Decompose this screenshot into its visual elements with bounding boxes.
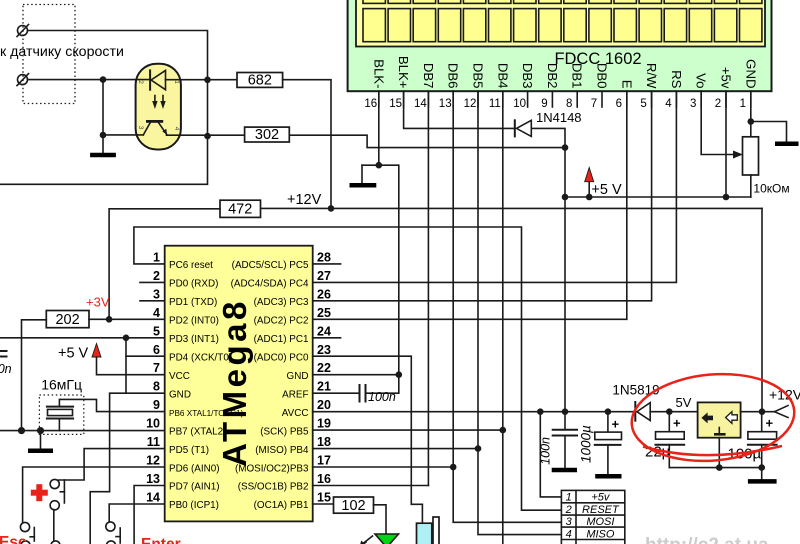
wire RESET net: pin1 up and across xyxy=(134,227,562,510)
wire +5v pin down to +5V row xyxy=(725,91,727,197)
junction SCK/DB4 xyxy=(500,427,507,434)
pin 3 stub xyxy=(140,300,165,302)
wire BLK- down xyxy=(378,91,380,165)
svg-text:Enter: Enter xyxy=(141,536,181,544)
svg-text:5: 5 xyxy=(640,98,646,110)
junction 22u xyxy=(666,408,673,415)
svg-text:PD7 (AIN1): PD7 (AIN1) xyxy=(169,482,219,493)
svg-text:AREF: AREF xyxy=(282,389,308,400)
svg-text:PD0 (RXD): PD0 (RXD) xyxy=(169,279,218,290)
capacitor C1 (left edge, clipped) xyxy=(0,351,7,357)
junction sensor2/gnd tap xyxy=(100,76,107,83)
wire node A down to emitter node xyxy=(207,80,209,136)
wire pin 17 MOSI to DB6 column xyxy=(313,466,454,468)
svg-text:12: 12 xyxy=(146,454,160,468)
svg-text:+5 V: +5 V xyxy=(591,182,622,198)
LCD pin 9 stub xyxy=(551,91,553,107)
button SB3 Enter contact top xyxy=(106,522,115,531)
capacitor C6 100u electrolytic xyxy=(748,412,777,468)
svg-text:(ADC0) PC0: (ADC0) PC0 xyxy=(254,352,309,363)
red highlight ellipse xyxy=(628,368,798,468)
wire pin 23 PC0 to buzzer xyxy=(313,356,423,523)
svg-text:4: 4 xyxy=(153,306,160,320)
svg-text:6: 6 xyxy=(616,98,622,110)
svg-text:4: 4 xyxy=(665,98,672,110)
svg-text:1N4148: 1N4148 xyxy=(536,110,582,125)
svg-text:1: 1 xyxy=(740,98,746,110)
svg-text:R/W: R/W xyxy=(644,63,659,89)
resistor R1 682 xyxy=(237,72,283,88)
wire pin 19 SCK to DB4 column xyxy=(313,429,503,431)
svg-text:18: 18 xyxy=(317,435,331,449)
svg-text:ATMega8: ATMega8 xyxy=(216,298,253,467)
svg-text:1000µ: 1000µ xyxy=(579,425,594,463)
svg-text:+12V: +12V xyxy=(769,387,800,403)
LCD module FDCC 1602 body xyxy=(348,0,772,91)
svg-text:16: 16 xyxy=(317,472,331,486)
button SB1 lower pair contact (clipped) xyxy=(51,541,60,544)
wire pin 6 stub to INT1 drop xyxy=(126,355,165,357)
LCD pin 8 stub xyxy=(576,91,578,107)
wire +12V rail down right side xyxy=(761,208,763,411)
wire INT1 node down to GND wire xyxy=(125,338,127,393)
wire pin 14 to button SB3 Enter xyxy=(109,504,165,522)
svg-text:PD6 (AIN0): PD6 (AIN0) xyxy=(169,463,219,474)
svg-text:472: 472 xyxy=(228,202,252,218)
svg-text:9: 9 xyxy=(153,398,160,412)
wire GND rail pin 10 to left edge xyxy=(0,430,165,432)
svg-text:11: 11 xyxy=(147,435,160,449)
pin 24 stub xyxy=(313,337,341,339)
wire BLK+ to diode cathode xyxy=(404,91,515,128)
svg-text:(ADC1) PC1: (ADC1) PC1 xyxy=(254,334,309,345)
svg-text:20: 20 xyxy=(317,398,331,412)
svg-text:7: 7 xyxy=(591,98,597,110)
wire emitter node down and left off-canvas xyxy=(0,136,208,184)
wire E vertical to PC2 xyxy=(313,91,627,319)
DC-DC converter U3 body xyxy=(698,402,741,437)
svg-text:11: 11 xyxy=(489,98,501,110)
LED arrows xyxy=(359,536,373,544)
junction +3V node xyxy=(106,316,113,323)
diode D1 1N4148 xyxy=(515,120,532,136)
junction +5Vnet column xyxy=(562,408,569,415)
capacitor C3 100n xyxy=(553,412,577,468)
svg-text:202: 202 xyxy=(55,312,79,328)
svg-text:15: 15 xyxy=(389,98,402,110)
svg-text:DB1: DB1 xyxy=(570,63,585,89)
svg-text:302: 302 xyxy=(255,127,279,143)
svg-text:+5v: +5v xyxy=(719,67,734,89)
junction emitter-left xyxy=(100,132,107,139)
svg-text:4: 4 xyxy=(173,127,180,131)
LCD pin 2 stub xyxy=(725,91,727,107)
DC-DC gnd mark xyxy=(714,428,726,435)
junction diode/302 node xyxy=(562,144,569,151)
optocoupler phototransistor base bar xyxy=(146,120,163,123)
wire crystal bottom to gnd rail xyxy=(58,419,60,431)
svg-text:GND: GND xyxy=(169,389,191,400)
svg-text:BLK-: BLK- xyxy=(371,59,386,88)
LED D3 green xyxy=(375,534,399,544)
svg-text:PB6 XTAL1/TOSC1): PB6 XTAL1/TOSC1) xyxy=(169,409,244,418)
svg-text:DB7: DB7 xyxy=(421,63,436,89)
svg-text:+5 V: +5 V xyxy=(58,346,89,362)
wire pot bottom to +5V row xyxy=(750,175,752,197)
svg-text:100n: 100n xyxy=(539,437,553,465)
LCD pin 10 stub xyxy=(527,91,529,107)
LCD pin 5 stub xyxy=(651,91,653,107)
dotted box crystal xyxy=(39,395,83,434)
wire diode anode to vertical 565 xyxy=(531,128,565,147)
diode D2 1N5819 xyxy=(635,402,650,421)
svg-text:26: 26 xyxy=(317,287,331,301)
svg-text:RS: RS xyxy=(669,70,684,89)
svg-text:13: 13 xyxy=(146,472,160,486)
svg-text:1N5819: 1N5819 xyxy=(612,383,659,398)
svg-text:+: + xyxy=(673,416,681,431)
pin 2 stub xyxy=(140,281,165,283)
svg-text:Vo: Vo xyxy=(694,73,709,88)
ground G5 (100n) xyxy=(552,468,577,473)
wire +5V column (diode node to rail) xyxy=(564,197,566,412)
capacitor C4 1000u electrolytic xyxy=(595,412,622,474)
svg-text:(ADC2) PC2: (ADC2) PC2 xyxy=(254,316,309,327)
LCD pin 7 stub xyxy=(601,91,603,107)
emitter node junction xyxy=(204,133,211,140)
optocoupler LED triangle xyxy=(151,70,165,89)
svg-text:2: 2 xyxy=(137,80,144,84)
LCD pin 16 stub xyxy=(378,91,380,107)
junction MOSI/DB6 xyxy=(450,464,457,471)
svg-text:1: 1 xyxy=(153,250,160,264)
ground G4 (main) xyxy=(28,431,53,451)
svg-text:8: 8 xyxy=(153,380,160,394)
svg-text:10: 10 xyxy=(146,417,160,431)
node A junction xyxy=(204,77,211,84)
optocoupler transistor collector leg xyxy=(143,123,150,135)
junction +12V column xyxy=(759,408,766,415)
wire diode to DCDC xyxy=(650,411,697,413)
svg-text:3: 3 xyxy=(153,287,160,301)
label + (red) xyxy=(31,484,48,501)
button SB2 actuator xyxy=(30,528,34,542)
svg-text:10кОм: 10кОм xyxy=(753,182,789,196)
junction DCDC gnd xyxy=(716,464,723,471)
wire RS vertical to PC4 xyxy=(313,91,677,282)
wire AVCC 5V rail xyxy=(313,411,636,413)
svg-text:AVCC: AVCC xyxy=(282,408,309,419)
wire 302 right with step to diode node xyxy=(289,135,565,147)
svg-text:9: 9 xyxy=(541,98,547,110)
svg-text:PD4 (XCK/T0): PD4 (XCK/T0) xyxy=(169,352,232,363)
bottom gnd rail xyxy=(669,467,761,469)
wire 682 to +12V rail drop xyxy=(283,80,331,209)
svg-text:VCC: VCC xyxy=(169,371,190,382)
junction +5V row corner xyxy=(562,194,569,201)
wire pin 8 GND net down to buttons xyxy=(90,393,165,544)
optocoupler light arrows xyxy=(152,96,166,110)
svg-text:E: E xyxy=(619,80,634,89)
connector pin sensor-1 (circle symbol) xyxy=(17,25,29,37)
junction GND pin xyxy=(748,118,755,125)
svg-text:19: 19 xyxy=(317,417,331,431)
svg-text:1: 1 xyxy=(566,492,572,504)
resistor R3 472 xyxy=(220,200,261,218)
optocoupler transistor emitter leg with arrow xyxy=(159,123,167,135)
svg-text:+: + xyxy=(612,417,620,432)
wire SB1 bottom down xyxy=(53,510,55,542)
wire pin 16 PB2 to DB7 column xyxy=(313,485,429,487)
svg-text:+: + xyxy=(766,416,774,431)
LCD character cells row 1 xyxy=(363,0,762,3)
crystal X1 16MHz xyxy=(47,407,73,419)
junction 1000u xyxy=(605,408,612,415)
svg-text:PD2 (INT0): PD2 (INT0) xyxy=(169,316,219,327)
wire 202 left down to gnd rail xyxy=(22,320,47,431)
svg-text:(ADC5/SCL) PC5: (ADC5/SCL) PC5 xyxy=(232,260,309,271)
junction +5v pin xyxy=(723,194,730,201)
svg-text:3: 3 xyxy=(137,126,144,130)
svg-text:PB0 (ICP1): PB0 (ICP1) xyxy=(169,500,219,511)
svg-text:5: 5 xyxy=(153,324,160,338)
potentiometer RV1 10kOhm xyxy=(743,137,759,175)
svg-text:(ADC3) PC3: (ADC3) PC3 xyxy=(254,297,309,308)
junction 682/+12V xyxy=(328,205,335,212)
svg-text:DB0: DB0 xyxy=(595,63,610,89)
DC-DC outline arrow xyxy=(726,412,738,424)
junction BLK- xyxy=(376,162,383,169)
ISP connector table xyxy=(561,490,624,544)
wire to opto pin3 xyxy=(103,134,143,136)
wire R/W vertical to PC3 xyxy=(313,91,652,301)
wire pin 12 to button SB2 Esc xyxy=(23,467,165,522)
resistor R2 302 xyxy=(245,127,290,143)
button SB1 actuator xyxy=(60,480,64,503)
svg-text:102: 102 xyxy=(341,498,365,514)
svg-text:14: 14 xyxy=(146,491,160,505)
button SB2 Esc contact bottom (clipped) xyxy=(21,541,30,544)
wire DB5 column to MISO row xyxy=(478,91,561,534)
svg-text:8: 8 xyxy=(566,98,572,110)
svg-text:1: 1 xyxy=(173,80,180,84)
LCD character cells row 2 xyxy=(363,9,762,42)
svg-text:100n: 100n xyxy=(0,362,12,376)
svg-text:MOSI: MOSI xyxy=(586,516,614,528)
LCD pin 11 stub xyxy=(502,91,504,107)
svg-text:DB4: DB4 xyxy=(495,63,510,89)
ground G2 (BLK-) xyxy=(350,165,379,185)
svg-text:4: 4 xyxy=(566,528,572,540)
button SB3 Enter contact bottom (clipped) xyxy=(106,541,115,544)
IC U2 ATMega8 body xyxy=(165,246,313,522)
svg-text:PD5 (T1): PD5 (T1) xyxy=(169,445,209,456)
wire opto pin4 to emitter node xyxy=(167,134,245,136)
capacitor C2 100n (AREF) xyxy=(313,375,399,402)
wire pin 22 GND stub xyxy=(313,374,399,376)
dotted connector box xyxy=(23,5,75,104)
wire DB6 column to MOSI row xyxy=(453,91,561,522)
wire pin 5 INT1 to left edge xyxy=(0,337,165,339)
button SB1 contact bottom xyxy=(50,501,59,510)
ground G1 (opto) xyxy=(90,135,116,155)
LCD pin 12 stub xyxy=(477,91,479,107)
junction INT1 xyxy=(123,335,130,342)
junction +5V arrow xyxy=(586,194,593,201)
wire opto LED cathode to node A xyxy=(166,79,238,81)
svg-text:PD3 (INT1): PD3 (INT1) xyxy=(169,334,219,345)
button SB3 actuator xyxy=(116,528,120,543)
svg-text:+12V: +12V xyxy=(287,192,322,208)
wire +5V row xyxy=(565,196,751,198)
svg-text:MISO: MISO xyxy=(586,528,615,540)
svg-text:6: 6 xyxy=(153,343,160,357)
connector pin sensor-2 (circle symbol) xyxy=(17,74,29,86)
LCD pin 1 stub xyxy=(750,91,752,107)
svg-text:RESET: RESET xyxy=(582,504,620,516)
svg-text:10: 10 xyxy=(513,98,526,110)
svg-text:13: 13 xyxy=(439,98,452,110)
svg-text:GND: GND xyxy=(287,371,309,382)
svg-text:3: 3 xyxy=(690,98,696,110)
svg-text:(ADC4/SDA) PC4: (ADC4/SDA) PC4 xyxy=(231,279,309,290)
svg-text:5V: 5V xyxy=(676,395,692,410)
svg-text:21: 21 xyxy=(317,380,331,394)
junction MISO/DB5 xyxy=(475,445,482,452)
wire pin 13 down (to bottom edge) xyxy=(134,486,165,544)
svg-text:+3V: +3V xyxy=(86,295,110,310)
LCD pin 15 stub xyxy=(403,91,405,107)
svg-text:17: 17 xyxy=(317,454,331,468)
svg-text:PB7 (XTAL2): PB7 (XTAL2) xyxy=(169,426,226,437)
LCD pin 13 stub xyxy=(452,91,454,107)
wire 102 to LED xyxy=(374,505,387,534)
svg-text:2: 2 xyxy=(565,504,572,516)
wire 472 left to +3V drop xyxy=(109,209,220,319)
ground G7 (100u) xyxy=(748,468,777,482)
svg-text:12: 12 xyxy=(464,98,477,110)
wire crystal top to pin 9 XTAL1 xyxy=(59,399,164,411)
junction gnd rail ground tap xyxy=(37,427,44,434)
wire 202 to pin 4 xyxy=(89,318,165,320)
svg-text:(OC1A) PB1: (OC1A) PB1 xyxy=(254,500,309,511)
wire gnd tap down xyxy=(102,80,104,135)
svg-text:к датчику скорости: к датчику скорости xyxy=(0,44,124,60)
+12V tap arrow xyxy=(775,406,789,418)
wire sensor pin1 to node A xyxy=(28,31,208,80)
+12V rail xyxy=(261,207,763,209)
svg-text:7: 7 xyxy=(153,361,160,375)
svg-text:28: 28 xyxy=(317,250,331,264)
wire DB4 column to SCK row (clipped) xyxy=(502,91,504,544)
wire pin 11 to button SB1 xyxy=(59,449,165,480)
LCD pin 3 stub xyxy=(700,91,702,107)
wire DCDC gnd to bottom rail xyxy=(718,438,720,468)
DC-DC solid arrow xyxy=(701,412,713,423)
svg-text:Esc: Esc xyxy=(0,534,27,544)
svg-text:23: 23 xyxy=(317,343,331,357)
button SB2 Esc contact top xyxy=(20,522,29,531)
svg-text:GND: GND xyxy=(743,59,758,88)
button SB1 contact top xyxy=(50,479,59,488)
svg-text:(SS/OC1B) PB2: (SS/OC1B) PB2 xyxy=(238,482,309,493)
wire GND pin down xyxy=(750,91,752,137)
wire 5V feed to connector row1 xyxy=(540,412,561,497)
junction 5V feed connector xyxy=(537,408,544,415)
svg-text:(MOSI/OC2)PB3: (MOSI/OC2)PB3 xyxy=(235,463,309,474)
LCD pin 6 stub xyxy=(626,91,628,107)
wire DB7 column xyxy=(427,91,429,485)
capacitor C5 22u electrolytic xyxy=(656,412,685,468)
svg-text:16: 16 xyxy=(364,98,377,110)
svg-text:27: 27 xyxy=(317,269,331,283)
svg-text:http://c2.at.ua: http://c2.at.ua xyxy=(645,535,769,544)
wire node down to +5V row xyxy=(564,148,566,197)
ground G6 (1000u) xyxy=(595,474,621,479)
svg-text:DB5: DB5 xyxy=(471,63,486,89)
+5V supply arrow (left, red) xyxy=(92,344,165,375)
optocoupler LED cathode bar xyxy=(149,70,151,89)
svg-text:22: 22 xyxy=(317,361,331,375)
svg-text:PC6 reset: PC6 reset xyxy=(169,260,213,271)
LCD pin 14 stub xyxy=(427,91,429,107)
svg-text:3: 3 xyxy=(566,516,573,528)
svg-text:100n: 100n xyxy=(368,390,396,404)
resistor R4 202 xyxy=(46,311,89,329)
svg-text:+5v: +5v xyxy=(591,492,611,504)
svg-text:PD1 (TXD): PD1 (TXD) xyxy=(169,297,217,308)
svg-text:DB6: DB6 xyxy=(446,63,461,89)
svg-text:16мГц: 16мГц xyxy=(41,377,82,393)
svg-text:682: 682 xyxy=(248,72,272,88)
wire pin 18 MISO to DB5 column xyxy=(313,448,478,450)
resistor R5 102 xyxy=(313,497,374,514)
junction pin22/BLK- xyxy=(396,371,403,378)
svg-text:25: 25 xyxy=(317,306,331,320)
svg-text:DB3: DB3 xyxy=(520,63,535,89)
svg-text:(MISO) PB4: (MISO) PB4 xyxy=(255,445,309,456)
svg-text:(SCK) PB5: (SCK) PB5 xyxy=(260,426,309,437)
pin 28 stub xyxy=(313,263,341,265)
ground G3 (LCD GND) xyxy=(751,122,799,144)
svg-text:2: 2 xyxy=(153,269,160,283)
wire BLK- jog right and down to GND pin22 node xyxy=(379,165,399,375)
+5V supply arrow (red) xyxy=(585,168,594,198)
buzzer BZ1 body xyxy=(417,523,432,544)
junction gnd rail left xyxy=(18,427,25,434)
junction 100u gnd xyxy=(758,464,765,471)
wire sensor pin2 to opto LED anode xyxy=(28,79,151,81)
optocoupler U1 body xyxy=(136,64,181,150)
svg-text:14: 14 xyxy=(414,98,427,110)
svg-text:15: 15 xyxy=(317,491,331,505)
svg-text:BLK+: BLK+ xyxy=(396,56,411,89)
svg-text:24: 24 xyxy=(317,324,331,338)
buzzer plate xyxy=(433,517,439,544)
LCD pin 4 stub xyxy=(675,91,677,107)
wire DCDC right to +12V tap xyxy=(741,411,775,413)
svg-text:DB2: DB2 xyxy=(545,63,560,89)
wire Vo to potentiometer wiper xyxy=(701,91,743,158)
svg-text:2: 2 xyxy=(715,98,721,110)
